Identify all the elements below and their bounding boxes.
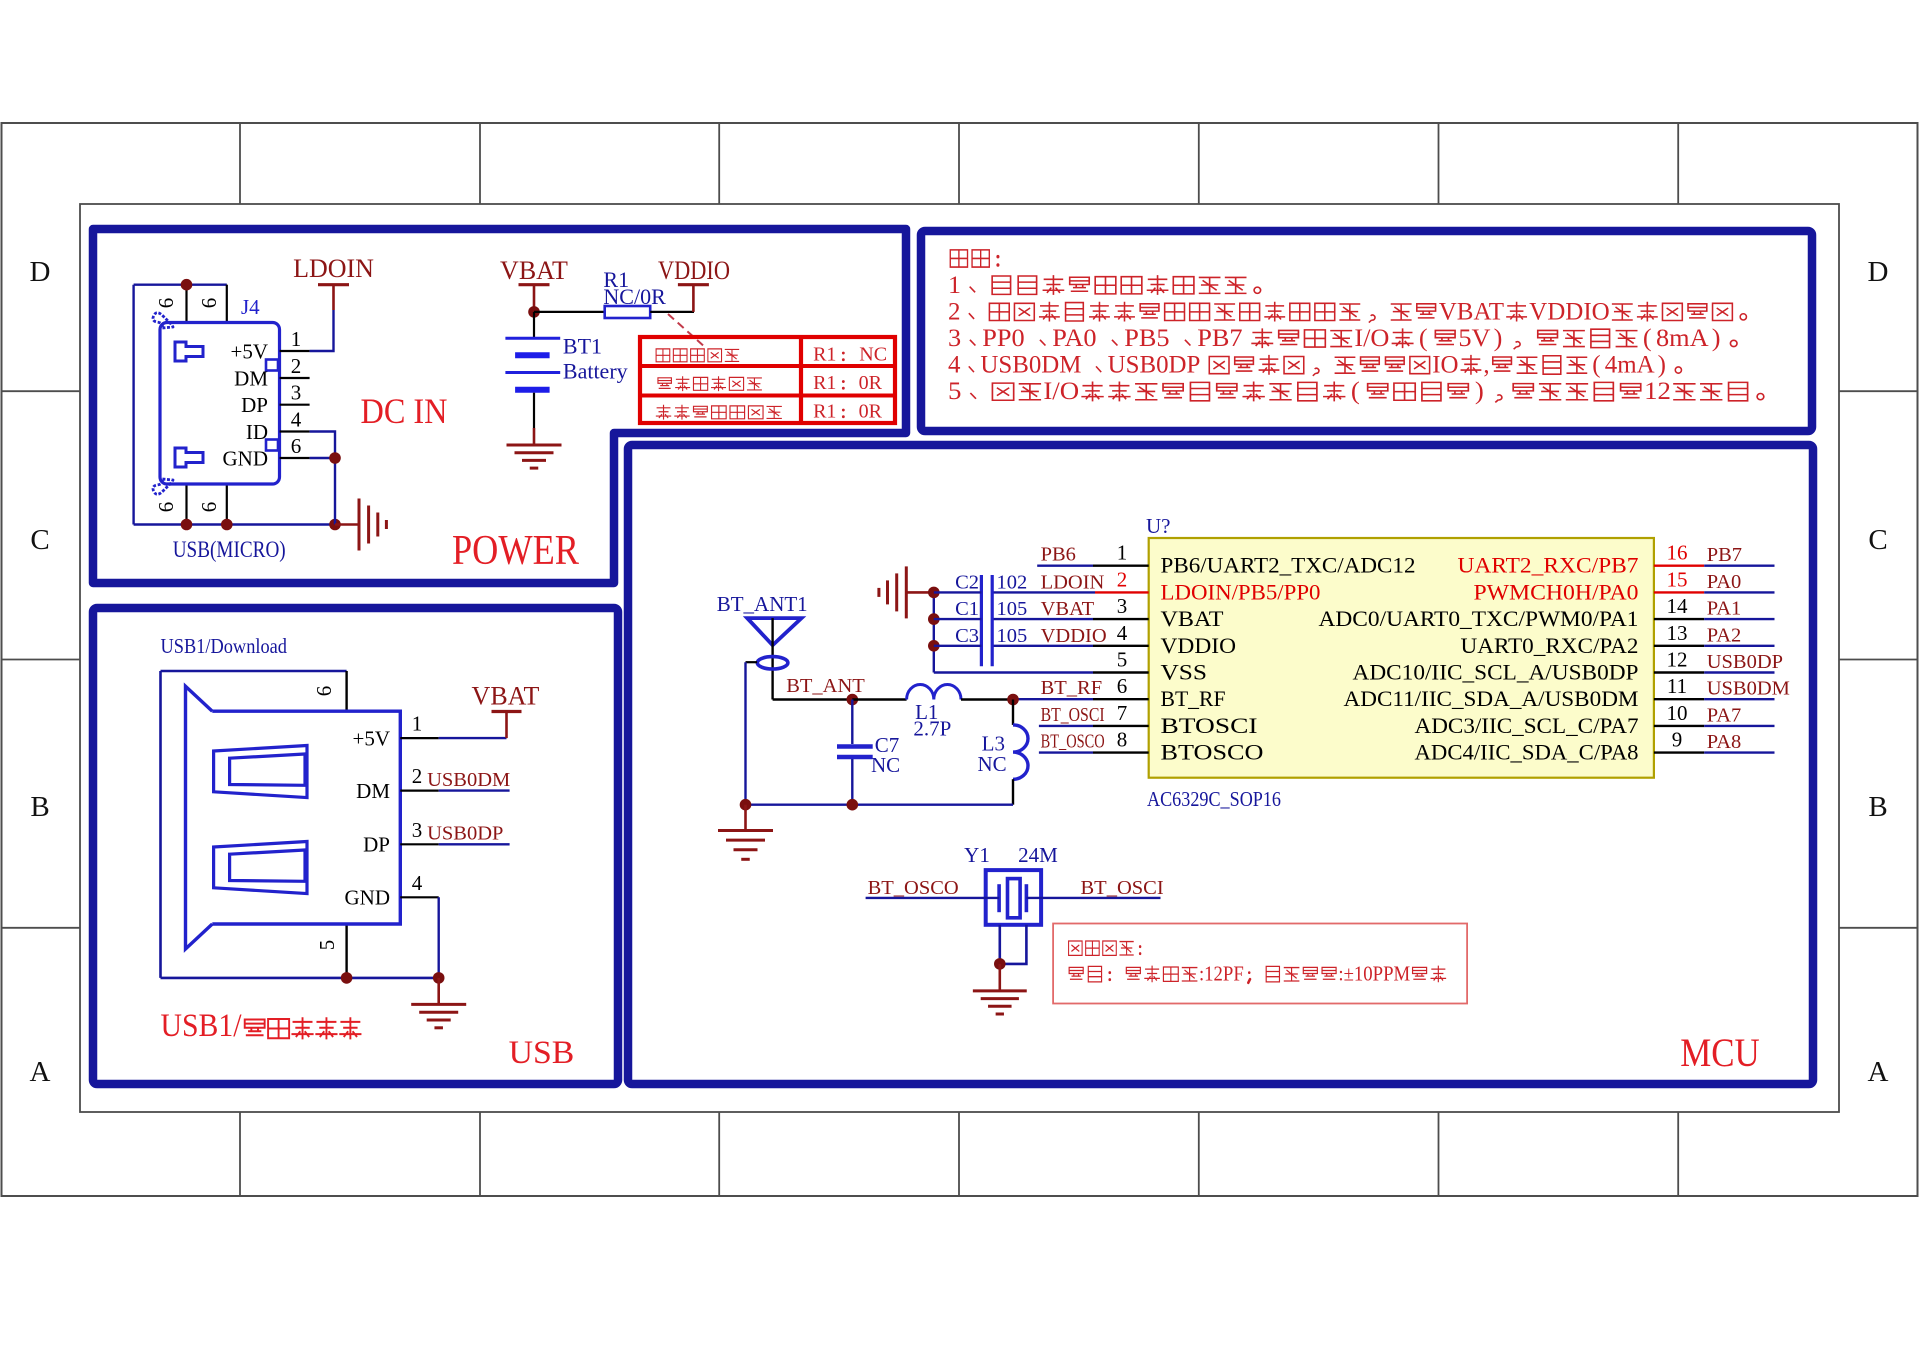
svg-text:12: 12 [1644,377,1671,405]
svg-text:NC/0R: NC/0R [603,284,666,309]
svg-text:): ) [1658,352,1666,379]
svg-text:A: A [1868,1056,1889,1088]
svg-text:9: 9 [1672,728,1683,752]
svg-text:MCU: MCU [1680,1030,1760,1075]
svg-text:1: 1 [412,712,423,736]
svg-text:C: C [1868,524,1887,556]
svg-text:6: 6 [154,502,178,513]
svg-text:VDDIO: VDDIO [1041,625,1107,647]
svg-text:0R: 0R [859,372,883,394]
svg-text:PB7: PB7 [1197,324,1243,352]
svg-text:13: 13 [1667,621,1688,645]
svg-text:DM: DM [234,367,268,391]
svg-text:BT_OSCO: BT_OSCO [868,877,959,899]
svg-text:(: ( [1419,324,1428,352]
svg-text:Y1: Y1 [964,843,990,867]
svg-text:VDDIO: VDDIO [658,256,730,285]
svg-text:BT_OSCO: BT_OSCO [1041,731,1105,753]
svg-text:I/O: I/O [1354,324,1389,352]
svg-text:NC: NC [871,753,900,777]
svg-text:16: 16 [1667,541,1688,565]
svg-text:102: 102 [997,571,1028,593]
svg-text:UART0_RXC/PA2: UART0_RXC/PA2 [1461,633,1639,658]
svg-text:ADC3/IIC_SCL_C/PA7: ADC3/IIC_SCL_C/PA7 [1415,713,1639,738]
svg-text:BT_RF: BT_RF [1161,686,1226,711]
svg-text:11: 11 [1667,674,1687,698]
svg-text:AC6329C_SOP16: AC6329C_SOP16 [1147,787,1281,811]
svg-text:LDOIN: LDOIN [1041,571,1105,593]
svg-text:(: ( [1351,377,1360,405]
svg-text:PA1: PA1 [1707,598,1742,620]
svg-text:6: 6 [291,434,302,458]
svg-text:6: 6 [197,298,221,309]
svg-text:6: 6 [197,502,221,513]
svg-text:USB(MICRO): USB(MICRO) [173,537,286,562]
svg-text:3: 3 [1117,594,1128,618]
svg-text:0R: 0R [859,401,883,423]
svg-text:VBAT: VBAT [1439,298,1504,325]
svg-text:LDOIN/PB5/PP0: LDOIN/PB5/PP0 [1161,579,1321,604]
svg-text:,: , [1483,352,1489,379]
svg-text:R1: R1 [813,401,836,423]
svg-text:VBAT: VBAT [1041,598,1095,620]
svg-text:2: 2 [412,764,423,788]
svg-text:USB0DP: USB0DP [427,823,503,845]
svg-text:BT_OSCI: BT_OSCI [1041,704,1105,726]
svg-text:5: 5 [948,377,961,405]
svg-text:10: 10 [1667,701,1688,725]
svg-text:3: 3 [291,381,302,405]
svg-text:ADC0/UART0_TXC/PWM0/PA1: ADC0/UART0_TXC/PWM0/PA1 [1319,606,1639,631]
svg-text:D: D [30,256,51,288]
svg-text:+5V: +5V [352,727,390,751]
svg-text:PP0: PP0 [982,324,1024,352]
svg-text:PB5: PB5 [1124,324,1169,352]
svg-text:A: A [30,1056,51,1088]
svg-text:VDDIO: VDDIO [1529,298,1610,325]
svg-text:C1: C1 [955,598,979,620]
svg-text:USB1/: USB1/ [161,1008,243,1044]
svg-text:B: B [1868,791,1887,823]
svg-text:R1: R1 [813,344,836,366]
svg-text:PB6/UART2_TXC/ADC12: PB6/UART2_TXC/ADC12 [1161,553,1416,578]
svg-text:(: ( [1643,324,1652,352]
svg-text:C2: C2 [955,571,979,593]
svg-text:4: 4 [1117,621,1128,645]
svg-text:UART2_RXC/PB7: UART2_RXC/PB7 [1458,553,1639,578]
svg-text:C3: C3 [955,625,979,647]
svg-text:+5V: +5V [230,340,268,364]
svg-text:3: 3 [948,324,961,352]
svg-text:D: D [1868,256,1889,288]
svg-text:PB6: PB6 [1041,544,1076,566]
svg-text:105: 105 [997,598,1028,620]
svg-text:VSS: VSS [1161,660,1208,685]
svg-text:5: 5 [315,940,339,951]
svg-text:BT_RF: BT_RF [1041,677,1103,699]
svg-text::±10PPM: :±10PPM [1338,963,1410,986]
svg-text:VBAT: VBAT [472,682,540,711]
svg-text:GND: GND [345,886,391,910]
svg-text:6: 6 [1117,674,1128,698]
svg-text:12: 12 [1667,648,1688,672]
svg-text:BT1: BT1 [563,334,602,359]
svg-text:VBAT: VBAT [1161,606,1225,631]
svg-text:U?: U? [1146,514,1171,538]
svg-text:PA8: PA8 [1707,731,1742,753]
svg-text:NC: NC [978,752,1007,776]
svg-text:BT_ANT1: BT_ANT1 [717,592,808,616]
svg-text:NC: NC [859,344,887,366]
svg-text:2: 2 [948,298,961,325]
svg-text:3: 3 [412,818,423,842]
svg-text:USB1/Download: USB1/Download [161,634,288,658]
svg-text:PA2: PA2 [1707,624,1742,646]
svg-text:4: 4 [948,352,961,379]
svg-text:C: C [30,524,49,556]
svg-text:PWMCH0H/PA0: PWMCH0H/PA0 [1474,579,1639,604]
svg-text:ADC11/IIC_SDA_A/USB0DM: ADC11/IIC_SDA_A/USB0DM [1344,686,1639,711]
svg-text:5V: 5V [1458,324,1491,352]
svg-text:B: B [30,791,49,823]
svg-text:8: 8 [1117,728,1128,752]
svg-text:GND: GND [223,447,269,471]
svg-text:PA0: PA0 [1052,324,1096,352]
svg-text:4: 4 [412,871,423,895]
svg-text:BT_ANT: BT_ANT [786,675,865,697]
svg-text:4: 4 [291,408,302,432]
svg-text:BT_OSCI: BT_OSCI [1081,877,1164,899]
svg-text:2: 2 [1117,567,1128,591]
svg-text:BTOSCO: BTOSCO [1161,740,1264,765]
svg-text:2: 2 [291,354,302,378]
svg-text:PA7: PA7 [1707,704,1742,726]
svg-text::12PF: :12PF [1199,963,1244,986]
svg-text:ADC10/IIC_SCL_A/USB0DP: ADC10/IIC_SCL_A/USB0DP [1353,660,1639,685]
svg-text:2.7P: 2.7P [913,717,951,741]
svg-text:DP: DP [363,833,390,857]
svg-text:DM: DM [356,779,390,803]
svg-text:1: 1 [1117,541,1128,565]
svg-text:7: 7 [1117,701,1128,725]
svg-text:Battery: Battery [563,359,628,384]
svg-text:USB0DM: USB0DM [427,769,510,791]
svg-text:USB0DP: USB0DP [1707,651,1783,673]
svg-text:4mA: 4mA [1605,352,1655,379]
svg-text:VBAT: VBAT [500,256,568,285]
svg-text:8mA: 8mA [1656,324,1709,352]
svg-text:1: 1 [291,327,302,351]
svg-text:(: ( [1592,352,1600,379]
svg-text:ADC4/IIC_SDA_C/PA8: ADC4/IIC_SDA_C/PA8 [1415,740,1639,765]
svg-text:): ) [1475,377,1484,405]
svg-text:6: 6 [312,686,336,697]
svg-text:USB: USB [509,1035,575,1071]
svg-text:105: 105 [997,625,1028,647]
svg-text:6: 6 [154,298,178,309]
svg-text:24M: 24M [1018,843,1058,867]
svg-text:VDDIO: VDDIO [1161,633,1237,658]
svg-text:I/O: I/O [1043,377,1079,405]
svg-text:1: 1 [948,270,961,298]
svg-text:15: 15 [1667,567,1688,591]
svg-text:PA0: PA0 [1707,571,1742,593]
svg-text:IO: IO [1432,352,1458,379]
svg-text:USB0DM: USB0DM [980,352,1081,379]
svg-text:POWER: POWER [452,528,579,574]
svg-text:USB0DM: USB0DM [1707,678,1790,700]
svg-text:): ) [1712,324,1721,352]
svg-text:LDOIN: LDOIN [293,254,374,283]
svg-text:): ) [1494,324,1503,352]
svg-text:14: 14 [1667,594,1689,618]
svg-text:PB7: PB7 [1707,544,1742,566]
svg-text:USB0DP: USB0DP [1108,352,1201,379]
svg-text:DP: DP [241,393,268,417]
svg-text:J4: J4 [241,295,260,319]
svg-text:R1: R1 [813,372,836,394]
svg-text:5: 5 [1117,648,1128,672]
svg-text:BTOSCI: BTOSCI [1161,713,1258,738]
svg-text:ID: ID [246,420,268,444]
svg-text:DC IN: DC IN [361,391,448,431]
